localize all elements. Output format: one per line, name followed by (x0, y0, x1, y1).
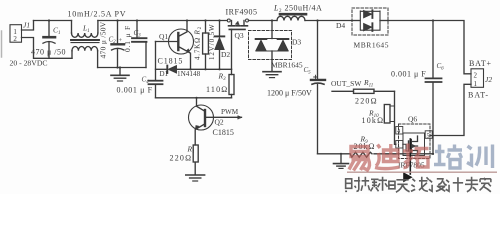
svg-text:C1815: C1815 (158, 57, 184, 66)
watermark rule line (347, 171, 497, 173)
resistor R11 (332, 89, 395, 93)
svg-text:220Ω: 220Ω (355, 97, 378, 106)
connector J1 (10, 25, 22, 43)
diode pair D4 MBR1645 (352, 8, 388, 35)
capacitor C6 (426, 21, 442, 155)
svg-text:Q6: Q6 (408, 115, 417, 124)
capacitor C4 (149, 81, 163, 98)
svg-text:4: 4 (397, 129, 400, 135)
char 迪 (375, 144, 400, 169)
svg-text:C6: C6 (437, 62, 445, 72)
node wire Q1 base / D1 / C4 vertical (155, 42, 157, 81)
char 易 (349, 147, 370, 171)
svg-text:C3: C3 (134, 29, 142, 39)
char 家 (480, 178, 491, 192)
char 线 (411, 177, 429, 192)
svg-text:R11: R11 (363, 78, 373, 89)
svg-text:2: 2 (13, 35, 17, 43)
ground (bottom rail) (334, 154, 349, 169)
char 计 (446, 177, 463, 192)
ground (D3) (263, 72, 281, 78)
svg-text:20 - 28VDC: 20 - 28VDC (10, 59, 48, 68)
wire J1 pin1 to top rail (22, 21, 34, 31)
svg-text:D1: D1 (160, 70, 169, 78)
svg-text:12V/0.5W: 12V/0.5W (208, 23, 216, 60)
wire C4/Q2 collector/R3 bottom node (156, 97, 232, 99)
svg-text:1: 1 (474, 80, 478, 88)
svg-text:10mH/2.5A PV: 10mH/2.5A PV (68, 10, 127, 19)
svg-text:0.001 μ F: 0.001 μ F (391, 70, 426, 79)
core lines (71, 39, 99, 41)
svg-text:470 μ /50: 470 μ /50 (31, 48, 66, 57)
svg-text:+: + (119, 37, 123, 44)
svg-text:470 μ /50V: 470 μ /50V (99, 21, 108, 58)
ground (input filter) (111, 68, 129, 82)
gate node wire with diode D1 inline (156, 68, 167, 70)
svg-text:J1: J1 (23, 21, 30, 30)
char 拓 (403, 144, 429, 168)
resistor R2 (203, 21, 209, 70)
char 频 (361, 177, 378, 192)
connector J2 (430, 69, 484, 136)
resistor R1 (193, 145, 198, 175)
svg-text:Q2: Q2 (215, 118, 224, 127)
svg-text:C4: C4 (142, 76, 150, 86)
svg-text:D3: D3 (292, 38, 301, 47)
svg-text:BAT+: BAT+ (469, 59, 492, 68)
char 训 (467, 145, 493, 169)
wire ground rail (mid-left) (98, 67, 146, 69)
watermark red logo text 易迪拓培训 (349, 144, 429, 171)
svg-text:C2: C2 (109, 36, 117, 46)
svg-text:L1: L1 (82, 24, 90, 35)
svg-text:0.1 μ F: 0.1 μ F (123, 25, 132, 52)
resistor R9 zigzag (350, 152, 372, 157)
watermark logo arrow mark (403, 139, 412, 182)
diode D1 (167, 65, 231, 73)
svg-text:C5: C5 (304, 66, 312, 76)
wire rail D4 to J2 corner (388, 21, 471, 74)
scan artifact left edge (1, 31, 3, 57)
bottom rail (318, 153, 351, 155)
capacitor C2 (112, 21, 125, 68)
char 培 (434, 145, 462, 169)
svg-text:C1: C1 (53, 26, 61, 37)
svg-text:PWM: PWM (221, 108, 239, 116)
wire top rail left segment (34, 20, 72, 22)
wire J1 pin2 down to bottom-left rail (22, 38, 73, 59)
wire rail Q3 to L2 (249, 20, 278, 22)
ground (R1) (186, 175, 205, 181)
wire top rail mid segment (98, 20, 227, 22)
svg-text:BAT-: BAT- (468, 91, 489, 100)
svg-text:2: 2 (474, 72, 478, 80)
svg-text:D4: D4 (336, 21, 345, 30)
watermark blue text 培训 (434, 145, 493, 169)
char 射 (345, 177, 360, 192)
resistor R3 (229, 69, 234, 98)
svg-text:J2: J2 (485, 75, 492, 84)
mosfet Q3 IRF4905 (227, 19, 248, 69)
svg-text:1200 μ F/50V: 1200 μ F/50V (267, 89, 312, 98)
svg-text:C1815: C1815 (213, 128, 234, 137)
capacitor C1 (43, 21, 55, 59)
svg-text:D2: D2 (221, 50, 230, 59)
char 专 (465, 177, 478, 192)
inductor L2 (277, 14, 306, 20)
svg-text:1N4148: 1N4148 (177, 70, 201, 78)
svg-text:Q3: Q3 (235, 31, 244, 40)
mosfet Q6 IRF7805 in dashed box (396, 124, 432, 159)
svg-text:IRF4905: IRF4905 (226, 8, 258, 17)
transistor Q1 (156, 21, 194, 70)
capacitor C3 (132, 21, 147, 68)
char 天 (396, 180, 410, 193)
svg-text:OUT_SW: OUT_SW (331, 79, 362, 88)
svg-text:MBR1645: MBR1645 (354, 41, 390, 50)
svg-text:220Ω: 220Ω (170, 154, 193, 163)
transistor Q2 (189, 98, 242, 145)
zener D2 (215, 21, 225, 70)
watermark gray text 射频和天线设计专家 (345, 177, 491, 193)
bottom winding (71, 51, 73, 59)
char 和 (378, 177, 395, 191)
svg-text:10kΩ: 10kΩ (362, 116, 385, 125)
char 设 (429, 179, 447, 192)
inductor L1 coupled (top winding in rail) (71, 21, 99, 68)
svg-text:110Ω: 110Ω (206, 85, 228, 94)
svg-text:R3: R3 (218, 71, 227, 82)
resistor R10 (384, 91, 396, 144)
svg-text:L2 250uH/4A: L2 250uH/4A (273, 4, 322, 15)
capacitor C5 (311, 21, 325, 154)
svg-text:4.7KΩ R2: 4.7KΩ R2 (194, 26, 204, 60)
wire rail L2 to D4 (305, 20, 352, 22)
diode pair D3 MBR1645 (249, 21, 292, 72)
svg-text:5: 5 (427, 134, 430, 140)
svg-text:0.001 μ F: 0.001 μ F (117, 86, 153, 95)
svg-text:Q1: Q1 (159, 32, 168, 41)
svg-text:MBR1645: MBR1645 (271, 61, 303, 70)
